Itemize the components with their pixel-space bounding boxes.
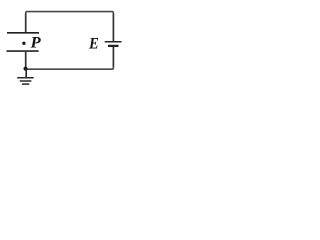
wire xyxy=(25,13,27,32)
wire xyxy=(112,13,114,41)
capacitor (top plate) xyxy=(7,32,39,34)
wire xyxy=(26,12,114,14)
ground xyxy=(17,69,34,84)
wire xyxy=(112,47,114,68)
svg-text:E: E xyxy=(88,36,99,53)
battery E xyxy=(105,42,122,46)
svg-text:P: P xyxy=(31,35,42,52)
wire xyxy=(25,52,27,69)
junction xyxy=(24,67,28,71)
wire xyxy=(26,68,114,70)
capacitor (bottom plate) xyxy=(7,50,39,52)
node P dot xyxy=(22,42,25,45)
